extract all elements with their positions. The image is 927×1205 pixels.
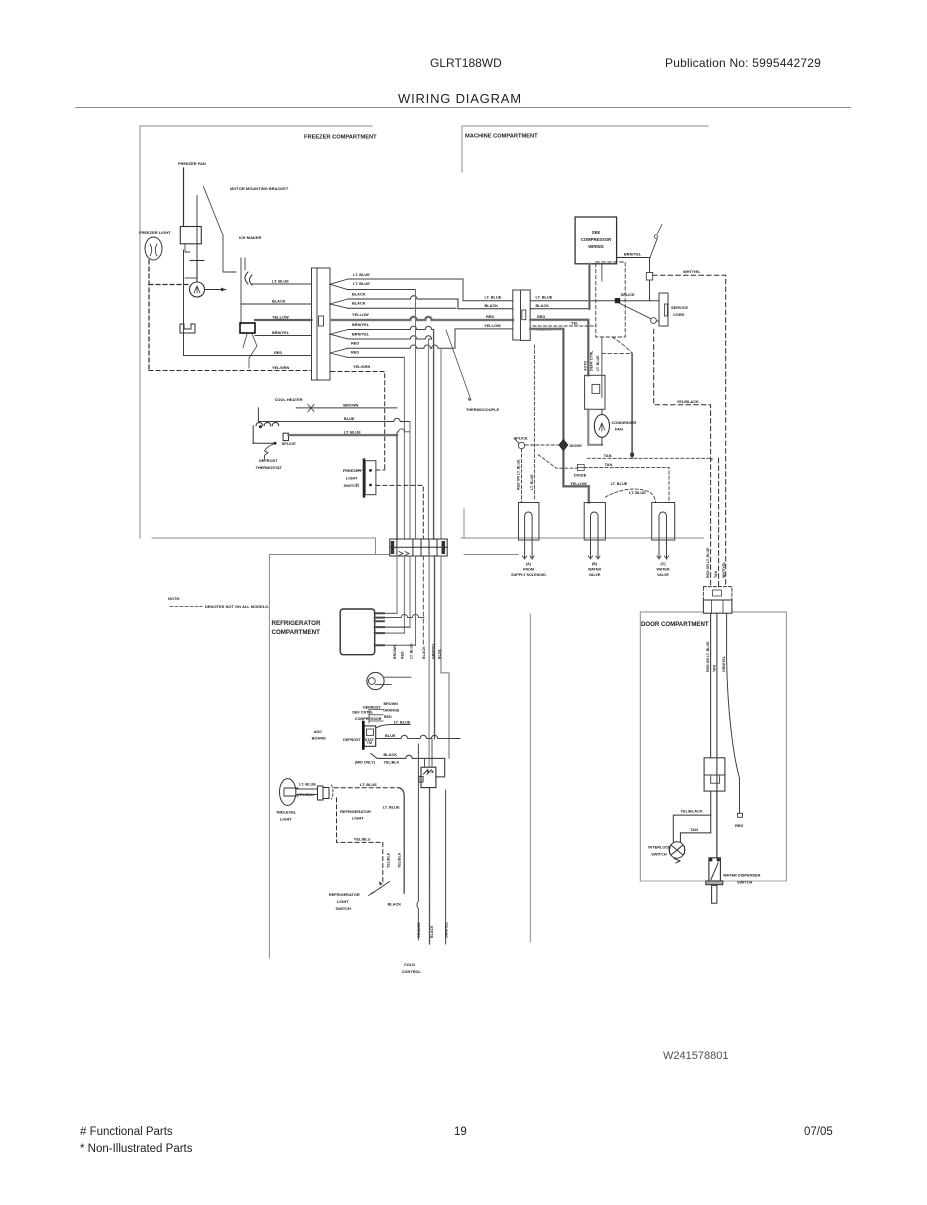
svg-text:SWITCH: SWITCH — [737, 880, 753, 885]
svg-text:LT. BLUE: LT. BLUE — [299, 781, 316, 786]
dashed wire yel/grn to light switch — [331, 372, 385, 471]
yel/black wire to interlock — [673, 815, 710, 842]
brown wire — [296, 407, 397, 409]
blue wire from relay — [376, 735, 460, 738]
freezer fan motor T-bar — [190, 261, 204, 282]
crimp chevrons — [330, 279, 348, 357]
freezer fan motor M1 — [190, 282, 205, 297]
curved lt blue wire to valve C — [605, 489, 655, 503]
cold control switch — [421, 767, 436, 787]
dashed tan wire 2 to valve C — [584, 467, 669, 502]
lamp leads — [296, 788, 318, 790]
machine connector labels right — [536, 295, 553, 332]
svg-text:VALVE: VALVE — [657, 573, 669, 577]
svg-text:WATER: WATER — [588, 568, 601, 572]
diode on yellow bus — [559, 440, 568, 451]
svg-text:* Non-Illustrated Parts: * Non-Illustrated Parts — [80, 1143, 193, 1155]
svg-text:BROWN: BROWN — [393, 645, 397, 659]
red wire terminal — [738, 813, 743, 817]
svg-text:RED: RED — [400, 651, 404, 659]
svg-text:YELLOW: YELLOW — [570, 481, 587, 486]
svg-text:SPLICE: SPLICE — [621, 292, 635, 297]
ice maker thermostat — [240, 323, 255, 333]
svg-text:WIRING DIAGRAM: WIRING DIAGRAM — [398, 91, 522, 106]
water valve C solenoid — [652, 503, 675, 560]
left stub — [257, 408, 259, 422]
dashed tan wire 1 — [587, 457, 712, 459]
label pointer lines — [356, 470, 362, 484]
bracket pointer line — [203, 187, 222, 236]
svg-text:ORANGE: ORANGE — [417, 922, 421, 938]
valve lead terminals — [523, 556, 669, 558]
svg-text:CONDENSER: CONDENSER — [612, 420, 637, 425]
svg-text:YEL/BLK: YEL/BLK — [384, 760, 400, 764]
dashed vertical lt blue — [533, 345, 535, 501]
heater X mark — [308, 405, 314, 412]
ice maker frame wires — [223, 235, 245, 324]
svg-text:WHT/YEL: WHT/YEL — [722, 561, 726, 578]
splice switch circle — [518, 442, 524, 448]
note dashed sample — [170, 606, 202, 608]
wire yellow — [255, 319, 312, 321]
svg-text:(B): (B) — [592, 562, 598, 566]
freezer fan shaft wire — [196, 196, 198, 260]
freezer compartment box — [140, 126, 376, 555]
compressor box — [575, 217, 617, 264]
damper bulb — [367, 672, 384, 689]
dispenser plunger — [712, 885, 717, 903]
dashed wire diode to splice switch — [525, 444, 559, 446]
rotated labels below cold control — [417, 921, 448, 938]
door compartment box — [640, 612, 786, 881]
svg-text:MOTOR MOUNTING BRACKET: MOTOR MOUNTING BRACKET — [230, 186, 289, 191]
svg-text:TAN: TAN — [690, 827, 698, 832]
thermostat junction dots — [259, 425, 262, 428]
svg-text:MACHINE COMPARTMENT: MACHINE COMPARTMENT — [465, 134, 538, 140]
svg-text:LIGHT: LIGHT — [346, 476, 358, 481]
tan wire to interlock — [680, 833, 710, 842]
svg-text:COMPARTMENT: COMPARTMENT — [272, 629, 321, 636]
svg-text:SUPPLY SOLENOID: SUPPLY SOLENOID — [511, 573, 546, 577]
svg-text:REFRIGERATOR: REFRIGERATOR — [272, 620, 321, 627]
svg-text:LT. BLUE: LT. BLUE — [409, 643, 413, 659]
svg-text:RED OR LT. BLUE: RED OR LT. BLUE — [706, 641, 710, 672]
brn/yel wire — [617, 257, 650, 259]
svg-text:DEF CNTRL: DEF CNTRL — [352, 711, 374, 715]
svg-text:(A): (A) — [526, 562, 532, 566]
svg-text:BLACK: BLACK — [352, 301, 366, 306]
dashed curve to timer bus — [612, 337, 632, 353]
svg-text:SWITCH: SWITCH — [651, 852, 667, 857]
svg-text:BLUE: BLUE — [344, 416, 355, 421]
control box U4 — [340, 609, 375, 655]
svg-text:GRN/YEL: GRN/YEL — [722, 655, 726, 672]
svg-text:YEL/BLK: YEL/BLK — [397, 852, 401, 868]
svg-text:WATER DISPENSER: WATER DISPENSER — [723, 873, 761, 878]
svg-text:WATER: WATER — [656, 568, 669, 572]
svg-text:LT. BLUE: LT. BLUE — [353, 281, 370, 286]
svg-text:BLACK: BLACK — [384, 752, 398, 757]
valve C label — [656, 562, 669, 577]
svg-text:BRN/YEL: BRN/YEL — [272, 330, 290, 335]
svg-text:LT. BLUE: LT. BLUE — [530, 474, 534, 490]
svg-text:WIRING: WIRING — [588, 244, 604, 249]
junction block pin marks — [399, 552, 409, 556]
svg-text:YEL: YEL — [571, 321, 579, 326]
svg-text:AUTO: AUTO — [584, 361, 588, 371]
compressor box label — [581, 230, 611, 249]
machine compartment box — [461, 126, 708, 538]
dispenser base plate — [706, 881, 723, 885]
svg-text:SWITCH: SWITCH — [336, 906, 352, 911]
light connector plug — [318, 786, 324, 800]
wire yellow/red thick — [331, 317, 513, 320]
freezer light lamp — [145, 237, 162, 260]
svg-text:FAN: FAN — [615, 427, 623, 432]
dashed tan join to bus — [718, 458, 720, 586]
svg-text:REFRIGERATOR: REFRIGERATOR — [340, 809, 371, 814]
svg-text:ICE MAKER: ICE MAKER — [239, 235, 262, 240]
svg-text:RED: RED — [274, 350, 282, 355]
dashed wht/yel wire to door bus — [653, 275, 726, 586]
compressor lead left — [588, 264, 590, 309]
svg-text:BLACK: BLACK — [272, 299, 286, 304]
svg-text:LT. BLUE: LT. BLUE — [394, 720, 411, 725]
svg-text:BLACK: BLACK — [352, 292, 366, 297]
bundle below junction — [396, 556, 398, 613]
door connector J4 — [703, 587, 732, 600]
wire bump and drop — [399, 788, 404, 893]
svg-text:LT. BLUE: LT. BLUE — [344, 430, 361, 435]
defrost relay TM — [364, 726, 376, 746]
diode 2 — [577, 464, 584, 470]
dashed horizontal to right bus — [602, 352, 632, 354]
svg-text:BLACK: BLACK — [536, 303, 550, 308]
svg-text:YEL/BLU: YEL/BLU — [354, 837, 371, 842]
svg-text:YEL/BLACK: YEL/BLACK — [677, 399, 699, 404]
defrost timer labels rotated — [584, 350, 601, 371]
svg-text:TAN: TAN — [712, 664, 716, 672]
svg-text:REFRIGERATOR: REFRIGERATOR — [329, 892, 360, 897]
svg-text:07/05: 07/05 — [804, 1126, 833, 1138]
svg-text:LT. BLUE: LT. BLUE — [383, 805, 400, 810]
wire red 2 — [348, 356, 404, 358]
svg-text:FREEZER COMPARTMENT: FREEZER COMPARTMENT — [304, 135, 377, 141]
valve B label — [588, 562, 601, 577]
svg-text:MIDLEVEL: MIDLEVEL — [277, 810, 297, 815]
svg-text:RED: RED — [384, 715, 392, 719]
svg-text:COOL HEATER: COOL HEATER — [275, 397, 303, 402]
svg-text:COMPRESSOR: COMPRESSOR — [355, 717, 382, 721]
svg-text:VALVE: VALVE — [589, 573, 601, 577]
junction block J3 — [390, 539, 447, 556]
freezer fan motor arrow — [205, 289, 227, 291]
machine connector J2 — [513, 290, 521, 340]
freezer light switch box — [365, 461, 376, 495]
svg-text:CORD: CORD — [673, 312, 685, 317]
water valve B solenoid — [584, 503, 605, 560]
svg-text:FROM: FROM — [523, 568, 534, 572]
svg-text:THERMOSTAT: THERMOSTAT — [256, 465, 283, 470]
svg-text:RED: RED — [351, 341, 359, 346]
black wire to cold control — [371, 754, 445, 759]
svg-text:DEFR CTRL: DEFR CTRL — [590, 350, 594, 371]
svg-text:BROWN: BROWN — [384, 702, 399, 706]
svg-text:YEL/BLK: YEL/BLK — [387, 852, 391, 868]
wire brn/yel — [255, 335, 312, 337]
svg-text:CONTROL: CONTROL — [402, 969, 422, 974]
condenser fan enclosure — [588, 409, 602, 445]
svg-text:FREEZER LIGHT: FREEZER LIGHT — [139, 230, 171, 235]
rotated wire labels bundle — [393, 642, 441, 659]
ice maker wire black — [241, 303, 312, 305]
svg-text:RED: RED — [486, 314, 494, 319]
svg-text:BOARD: BOARD — [312, 736, 326, 741]
water valve A solenoid — [519, 503, 539, 560]
wire black to compressor — [530, 308, 589, 310]
condenser fan motor — [594, 415, 609, 438]
svg-text:LT. BLUE: LT. BLUE — [596, 355, 600, 371]
svg-text:TAN: TAN — [604, 453, 612, 458]
dashed diagonal to diode 2 — [538, 455, 577, 469]
rotated labels door wires — [706, 641, 726, 672]
lt blue component — [283, 433, 288, 440]
dashed yel/blu path — [337, 798, 383, 882]
svg-text:YELLOW: YELLOW — [352, 312, 369, 317]
svg-text:LIGHT: LIGHT — [280, 817, 292, 822]
wire brn/yel 1 — [348, 326, 434, 329]
wire loop — [651, 318, 657, 324]
dashed yel wire — [533, 325, 596, 327]
svg-text:DOOR COMPARTMENT: DOOR COMPARTMENT — [641, 621, 709, 628]
control box pins — [375, 613, 385, 645]
dashed wire down to valve A — [521, 449, 523, 503]
ice maker wire lt blue — [252, 283, 312, 285]
title underline — [75, 107, 851, 109]
svg-text:YELLOW: YELLOW — [272, 315, 289, 320]
wire red thick down to timer — [530, 320, 588, 376]
dashed yel/black wire from service cord to door bus — [654, 329, 711, 586]
svg-text:WHT/YEL: WHT/YEL — [683, 269, 701, 274]
svg-text:RED OR LT. BLUE: RED OR LT. BLUE — [706, 547, 710, 578]
svg-text:FREEZER FAN: FREEZER FAN — [178, 161, 206, 166]
freezer light switch bar — [363, 458, 366, 497]
defrost thermostat body — [253, 423, 279, 444]
freezer fan motor lead — [185, 244, 190, 252]
wire splice to service cord — [620, 300, 659, 302]
dispenser actuator box — [704, 758, 725, 791]
svg-text:SEE: SEE — [592, 230, 601, 235]
splice point — [615, 298, 620, 303]
run capacitor — [649, 258, 651, 301]
dashed relay box around compressor start — [596, 262, 625, 337]
wires below cold control — [417, 744, 419, 940]
svg-text:W241578801: W241578801 — [663, 1050, 728, 1062]
pointer to harness — [446, 330, 471, 400]
service cord — [659, 293, 668, 326]
svg-text:YEL/GRN: YEL/GRN — [272, 365, 289, 370]
svg-text:Publication No: 5995442729: Publication No: 5995442729 — [665, 56, 821, 70]
svg-text:BLUE: BLUE — [385, 733, 396, 738]
wire yellow thick down to valve B — [530, 329, 589, 503]
water dispenser switch — [709, 858, 721, 883]
svg-text:DEFROST: DEFROST — [363, 705, 381, 709]
svg-text:DIODE: DIODE — [574, 473, 587, 478]
vertical bundle wires down to junction — [403, 357, 405, 539]
svg-text:YEL/BLACK: YEL/BLACK — [680, 808, 702, 813]
svg-text:ADC: ADC — [314, 729, 323, 734]
svg-text:19: 19 — [454, 1126, 467, 1138]
svg-text:LT. BLUE: LT. BLUE — [272, 279, 289, 284]
overload protector — [650, 239, 657, 258]
light switch blade — [372, 882, 390, 894]
defrost timer box — [585, 375, 605, 409]
lt blue vertical down — [396, 435, 398, 539]
freezer fan housing — [180, 227, 201, 244]
blue vertical down — [409, 422, 411, 540]
fanout labels right of connector — [351, 272, 370, 369]
wire from motor left to bus — [185, 277, 197, 279]
freezer light dashed wire down — [148, 260, 150, 371]
svg-text:GLRT188WD: GLRT188WD — [430, 56, 502, 70]
adc area labels — [352, 702, 399, 721]
ice maker contact hooks — [245, 272, 252, 285]
svg-text:SERVICE: SERVICE — [671, 305, 688, 310]
svg-text:RED OR LT. BLUE: RED OR LT. BLUE — [517, 459, 521, 490]
compressor lead right — [601, 264, 603, 281]
interlock switch — [669, 842, 685, 858]
svg-text:COLD: COLD — [404, 962, 415, 967]
machine connector labels left — [484, 295, 502, 329]
wire lt blue 2 — [348, 289, 416, 291]
svg-text:BLUE: BLUE — [437, 649, 441, 659]
svg-text:(C): (C) — [660, 562, 666, 566]
wire labels left of connector — [272, 279, 290, 371]
svg-text:TAN: TAN — [714, 570, 718, 578]
connector block J1 — [312, 268, 318, 380]
freezer fan lead wire — [183, 168, 185, 227]
rotated labels door bus — [706, 547, 726, 578]
svg-text:NOTE:: NOTE: — [168, 596, 180, 601]
svg-text:YELLOW: YELLOW — [484, 323, 501, 328]
door wires below connector — [710, 613, 712, 758]
svg-text:BLACK: BLACK — [422, 646, 426, 659]
svg-text:DEFROST T'STAT: DEFROST T'STAT — [343, 738, 375, 742]
svg-text:INTERLOCK: INTERLOCK — [648, 845, 671, 850]
adc pin stub wires — [369, 709, 383, 723]
dashed lt blue wire — [334, 787, 399, 789]
wire red 1 — [348, 329, 513, 348]
dashed yel/grn from switch right — [376, 485, 423, 539]
svg-text:LT. BLUE: LT. BLUE — [611, 481, 628, 486]
right bus vertical — [631, 353, 633, 458]
svg-text:LT. BLUE: LT. BLUE — [360, 782, 377, 787]
svg-text:RED: RED — [537, 314, 545, 319]
svg-text:BLACK: BLACK — [388, 902, 402, 907]
svg-text:LIGHT: LIGHT — [352, 816, 364, 821]
svg-text:DENOTES NOT ON ALL MODELS.: DENOTES NOT ON ALL MODELS. — [205, 604, 269, 609]
svg-text:YEL/GRN: YEL/GRN — [353, 364, 370, 369]
switch top leads — [424, 758, 426, 767]
svg-text:# Functional Parts: # Functional Parts — [80, 1126, 173, 1138]
left lead wire to red — [184, 250, 312, 356]
svg-text:BLACK: BLACK — [485, 303, 499, 308]
lt blue wire from relay — [376, 725, 410, 729]
svg-text:DIODE: DIODE — [570, 443, 583, 448]
svg-text:SPLICE: SPLICE — [282, 441, 296, 446]
wires below actuator — [710, 791, 712, 833]
cold control wire right — [436, 758, 445, 777]
wire brn/yel 2 — [348, 336, 432, 339]
svg-text:BROWN: BROWN — [343, 402, 358, 407]
thermostat pointer lines — [243, 334, 257, 368]
pin wires — [384, 612, 397, 614]
svg-text:(MID ONLY): (MID ONLY) — [355, 760, 376, 764]
svg-text:TAN: TAN — [605, 462, 613, 467]
svg-text:COMPRESSOR: COMPRESSOR — [581, 237, 611, 242]
svg-text:GRN/YEL: GRN/YEL — [432, 642, 436, 659]
defrost heater element — [180, 324, 195, 333]
svg-text:LT. BLUE: LT. BLUE — [485, 295, 502, 300]
refrigerator compartment box — [269, 555, 530, 959]
svg-text:LIGHT: LIGHT — [337, 899, 349, 904]
svg-text:DEFROST: DEFROST — [259, 458, 278, 463]
thermostat lead hook — [265, 443, 276, 459]
valve A label — [511, 562, 546, 577]
wire black 2 — [348, 307, 456, 309]
blue wire — [258, 418, 410, 421]
svg-text:ORANGE: ORANGE — [383, 708, 400, 712]
wire splice diagonal to loop — [619, 303, 651, 319]
svg-text:BRN/YEL: BRN/YEL — [352, 332, 370, 337]
wire lt blue 1 — [348, 279, 513, 301]
svg-text:BRN/YEL: BRN/YEL — [352, 322, 370, 327]
svg-text:FREEZER: FREEZER — [343, 468, 361, 473]
svg-text:BLACK: BLACK — [430, 925, 434, 938]
midlevel light lamp — [280, 779, 296, 806]
wire lt blue to splice — [530, 300, 615, 302]
dashed wire yel/grn horizontal — [149, 370, 312, 372]
svg-text:THERMOCOUPLE: THERMOCOUPLE — [466, 407, 499, 412]
svg-text:LT. BLUE: LT. BLUE — [629, 490, 646, 495]
svg-text:LT. BLUE: LT. BLUE — [353, 272, 370, 277]
svg-text:GRN/YEL: GRN/YEL — [444, 921, 448, 938]
svg-text:LT. BLUE: LT. BLUE — [536, 295, 553, 300]
svg-text:BRN/YEL: BRN/YEL — [624, 252, 642, 257]
svg-text:RED: RED — [351, 350, 359, 355]
lt blue wire thick — [289, 434, 398, 436]
svg-text:RED: RED — [735, 823, 743, 828]
wire black 1 — [348, 296, 513, 309]
